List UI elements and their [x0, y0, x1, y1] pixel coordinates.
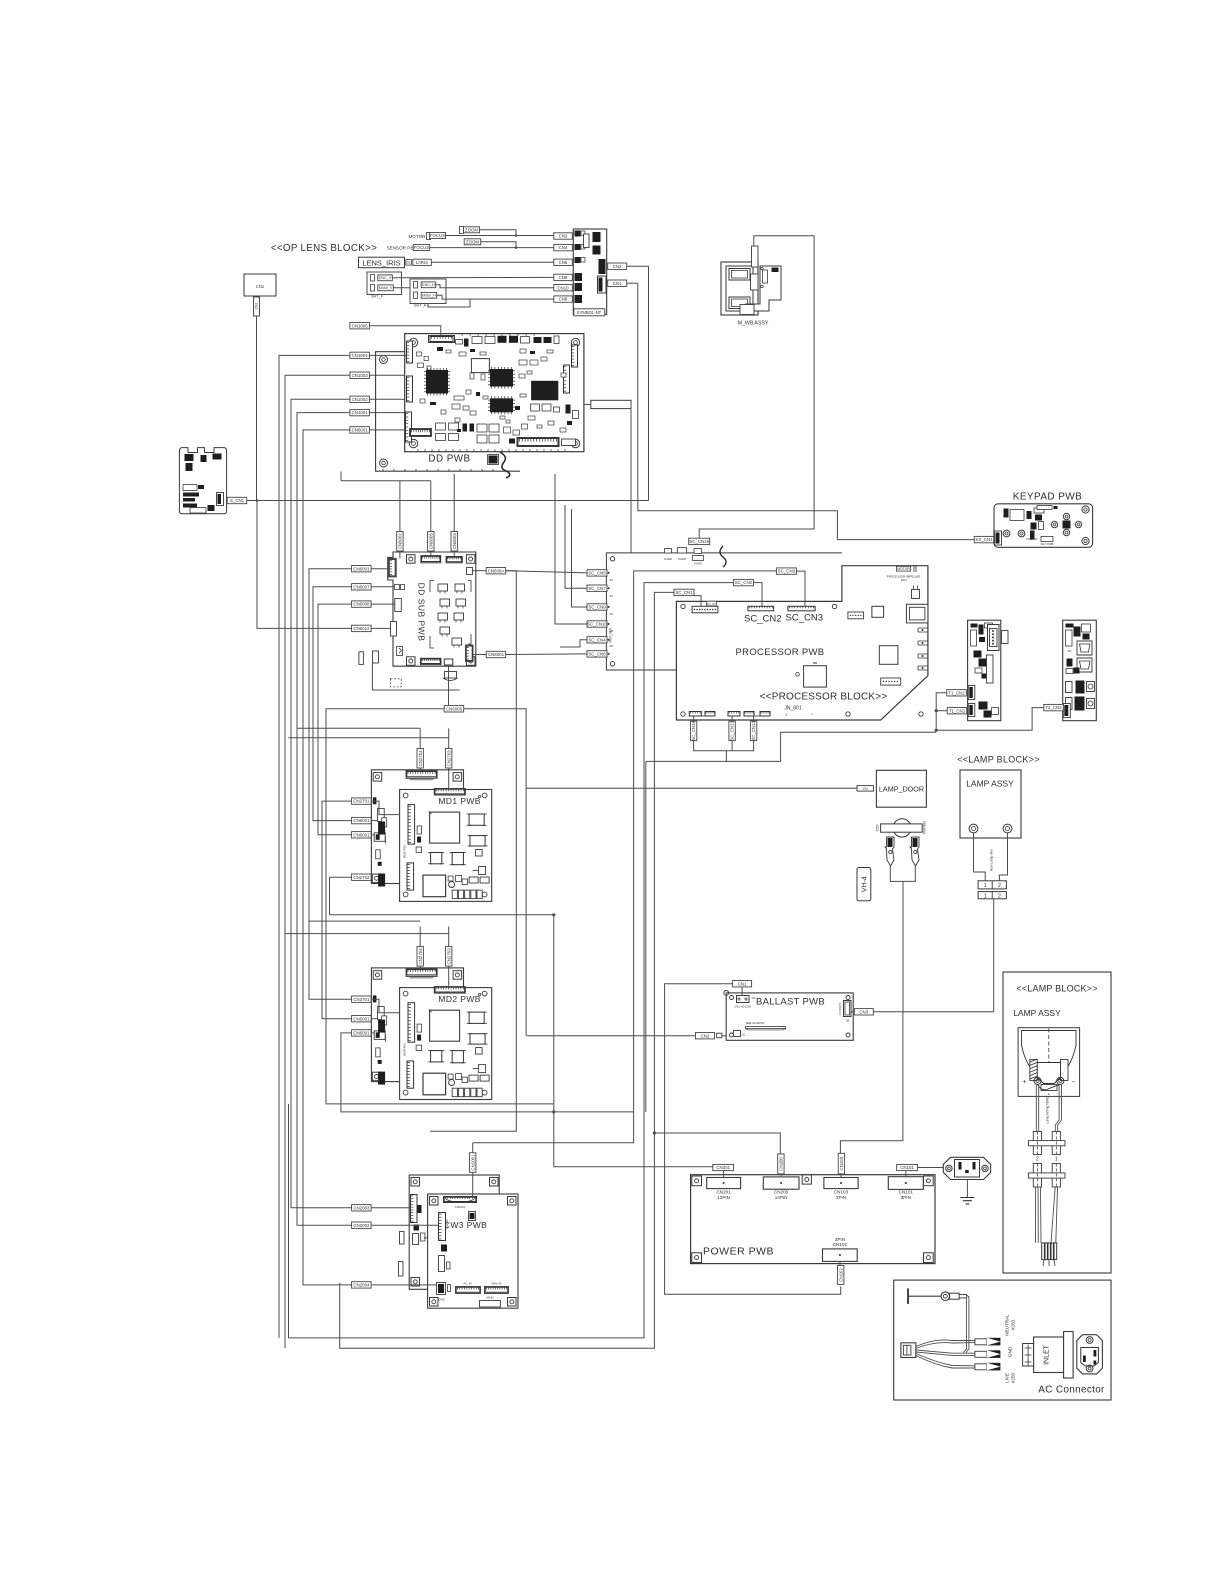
label box CN3 (ballast right) [854, 1009, 873, 1015]
MD1 PWB small left parts [417, 826, 422, 834]
svg-text:12PIN: 12PIN [717, 1195, 730, 1200]
AC inlet symbol top right of power [943, 1157, 990, 1179]
svg-text:FAN_IN: FAN_IN [492, 1282, 502, 1286]
wire CN2 to left vertical [526, 1035, 695, 1037]
right mid components DD PWB [531, 404, 540, 411]
svg-text:CN1004: CN1004 [352, 353, 369, 358]
wires from DD SUB top labels down to board [399, 551, 401, 558]
wire CN200 label to connector [780, 1174, 782, 1177]
T2 RCA connectors bottom [1066, 682, 1073, 693]
label box CN2004 [352, 1282, 372, 1288]
CW3 bottom connectors mid [456, 1287, 481, 1294]
IEC receptacle drawing [1077, 1335, 1103, 1374]
svg-text:CN2702: CN2702 [353, 875, 370, 880]
M_WB right small board [746, 266, 781, 311]
wire DD SUB lower right to label [473, 654, 486, 656]
spade terminal GND [975, 1351, 987, 1357]
svg-text:LAMP_DOOR: LAMP_DOOR [879, 785, 924, 794]
wire CN2 top to S_CN1 vertical [627, 266, 649, 500]
connector SC_CN3 on processor top [788, 606, 815, 611]
mount circles processor board [681, 604, 685, 608]
lamp hatched post left [1030, 1060, 1038, 1081]
dotted connector right processor [848, 612, 864, 619]
label box SC_CN2 (top) [733, 579, 753, 585]
MD2 PWB back left connectors CN area [378, 1007, 385, 1020]
box LAMP BLOCK lower [1003, 972, 1111, 1273]
text SYMBOL-NT [574, 309, 605, 316]
mount squares power corners [692, 1176, 702, 1186]
wire CN2701 MD2 PWB [371, 999, 399, 1013]
wire MD2 top feeds [309, 920, 420, 922]
left label SC_CN10 [587, 621, 607, 627]
wire CN2002 to CW3 [371, 1224, 438, 1226]
svg-text:CN6008: CN6008 [353, 602, 370, 607]
svg-text:CN102: CN102 [838, 1268, 843, 1282]
svg-text:1: 1 [984, 893, 987, 899]
board MD1 PWB back board [371, 770, 463, 884]
wire SC_CN2 label to connector [753, 583, 762, 607]
board POWER PWB [691, 1175, 935, 1264]
label MOTOR processor top right [896, 566, 910, 571]
svg-text:CN2701: CN2701 [353, 799, 370, 804]
box LAMP ASSY upper [960, 770, 1021, 838]
wires from DD SUB top labels up to DD PWB area [399, 481, 401, 532]
brace squiggle below DD PWB [500, 452, 510, 478]
sensor board bottom text blocks [183, 485, 197, 491]
wire SC_CN1 to left vertical down to bottom loop [340, 592, 674, 1348]
svg-text:<<PROCESSOR BLOCK>>: <<PROCESSOR BLOCK>> [760, 692, 888, 703]
wire MD1 top feeds [297, 727, 420, 729]
connector KS_CN1 on keypad [995, 531, 1002, 545]
mount squares CW3 front [430, 1197, 439, 1206]
inlet mounting plate [1064, 1332, 1074, 1379]
label box CN2003 [352, 1205, 372, 1211]
CW3 back small parts [414, 1225, 420, 1231]
mount squares MD2 PWB back [373, 971, 382, 980]
label box CN6001 MD2 PWB [352, 1030, 372, 1036]
svg-text:CN6001: CN6001 [353, 1031, 370, 1036]
label box CN1002 [350, 396, 370, 402]
small connector below-left DD SUB [373, 651, 379, 663]
MD1 PWB front top connector [434, 789, 465, 796]
mount squares MD1 PWB back [373, 773, 382, 782]
svg-text:GND: GND [1008, 1346, 1013, 1357]
keypad components cluster [1004, 509, 1009, 518]
lamp connector plugs upper pair [1033, 1132, 1041, 1155]
MD1 PWB mid ICs [431, 853, 442, 864]
group SHT_F (ENC_V / Motor_V) [367, 272, 402, 295]
svg-text:#250: #250 [1011, 1372, 1016, 1383]
MD2 PWB front left connectors [408, 1003, 415, 1042]
svg-text:ZOOM: ZOOM [465, 227, 479, 232]
svg-text:CN2703: CN2703 [446, 948, 451, 965]
svg-text:MODORI: MODORI [1027, 537, 1038, 541]
small dark part below DD PWB [489, 456, 498, 464]
mount squares DD SUB corners [407, 555, 416, 564]
wire keypad run [638, 283, 975, 539]
vertical label CN2703 above MD2 PWB [446, 947, 452, 967]
top connector A DD SUB [421, 556, 441, 563]
wire bus v291 CN1002 to CW3 CN2003 [291, 399, 352, 1208]
processor outer container [606, 553, 842, 670]
MD1 PWB back small connector CN6001 [374, 833, 385, 842]
T1 top components [971, 624, 978, 628]
keypad right screws [1082, 506, 1089, 513]
label box CN1001 [350, 409, 370, 415]
svg-text:Lamp Wiring WIRE: Lamp Wiring WIRE [1046, 1096, 1050, 1123]
svg-text:AC_IN: AC_IN [463, 1282, 471, 1286]
board DD SUB PWB outline [388, 552, 476, 666]
wire SC_CN18 branch down mid vertical [646, 760, 727, 762]
connector SC_CN (left on processor) [692, 606, 718, 613]
side connectors mid DD PWB [564, 365, 570, 393]
svg-text:CN10: CN10 [557, 285, 569, 290]
svg-text:FAN: FAN [901, 578, 907, 582]
svg-text:PROCESSOR PWB: PROCESSOR PWB [736, 647, 825, 658]
svg-text:SENSOR PB: SENSOR PB [387, 246, 414, 251]
svg-text:FOCUS: FOCUS [414, 245, 429, 250]
brace squiggle right of SC_CN16 [720, 546, 726, 567]
component K bottom left DD SUB [397, 647, 403, 656]
thermal crimp terminal right [910, 837, 919, 866]
vertical label CN200 [778, 1154, 784, 1174]
connector CN1 (top-left box) [244, 274, 276, 296]
MD1 PWB back left connectors CN area [378, 808, 385, 821]
M_WB bottom connector [740, 305, 754, 315]
T1 small box right outside [1002, 631, 1009, 644]
svg-text:CN4: CN4 [559, 245, 568, 250]
svg-text:2: 2 [1036, 1157, 1039, 1163]
wire CN6012 to DD SUB [371, 627, 390, 629]
left connectors DD SUB (CN6007 CN6008 CN6012 targets) [395, 585, 400, 590]
right edge pin rows processor [918, 628, 928, 632]
svg-text:CN: CN [752, 996, 756, 1000]
MD2 PWB small left parts [417, 1024, 422, 1032]
svg-text:CN101: CN101 [900, 1165, 914, 1170]
wire CN1002 to DD PWB left [369, 398, 404, 400]
board CW3 front board [428, 1194, 518, 1308]
svg-text:2: 2 [998, 883, 1001, 889]
svg-text:#250: #250 [876, 824, 880, 831]
component LAMP_DOOR box [876, 770, 926, 807]
board MD2 PWB back board [371, 968, 463, 1082]
svg-text:SC_CN6: SC_CN6 [588, 652, 606, 657]
svg-text:CN1: CN1 [738, 981, 747, 986]
label box CN1003 [350, 372, 370, 378]
power connector CN201 [707, 1178, 741, 1189]
svg-text:MOTOR: MOTOR [897, 567, 910, 571]
connector CN2 vertical below CN1 [254, 297, 260, 316]
svg-text:CN5001: CN5001 [353, 1016, 370, 1021]
wire CN3 right to lamp and down to power CN103 [873, 1011, 993, 1013]
svg-text:CN3: CN3 [559, 234, 568, 239]
dashed alignment box below DD SUB [390, 679, 401, 687]
label box T1_CN1 [947, 708, 967, 714]
inlet 3-pin block [1023, 1344, 1034, 1367]
power connector CN200 [763, 1177, 799, 1189]
board DD PWB main outline [405, 334, 584, 452]
ferrite box right of CN2 [717, 1033, 722, 1038]
svg-text:KEY PWB: KEY PWB [1041, 542, 1054, 546]
MD1 PWB small square right [476, 850, 483, 857]
label box CN6001 (DD SUB right lower) [486, 651, 506, 657]
svg-text:1: 1 [984, 883, 987, 889]
svg-text:CN200: CN200 [779, 1157, 784, 1171]
label box CN6001 (DD SUB left) [352, 566, 372, 572]
svg-text:−: − [1072, 1079, 1076, 1086]
wire CN6008 to DD SUB [371, 603, 395, 605]
svg-text:M_WB ASSY: M_WB ASSY [738, 321, 769, 327]
svg-text:CN5: CN5 [559, 260, 568, 265]
svg-text:<<LAMP BLOCK>>: <<LAMP BLOCK>> [957, 755, 1040, 765]
connector SC_CN2 on processor top [748, 606, 774, 611]
pin marks left inside outer [610, 579, 614, 581]
svg-text:CN2701: CN2701 [353, 997, 370, 1002]
mid bottom small parts DD PWB [504, 427, 511, 433]
big ic right processor [879, 646, 898, 665]
bottom connector DD SUB [421, 658, 442, 664]
svg-text:SC_CN2: SC_CN2 [744, 614, 782, 625]
MD1 PWB left dark connector [378, 822, 385, 835]
svg-text:CN2: CN2 [701, 1033, 710, 1038]
wire junction horizontal to CN200 [654, 1133, 780, 1154]
connector symbol at MOTOR [427, 233, 431, 240]
ic square right processor [872, 606, 884, 617]
board MD2 PWB front board [400, 988, 492, 1100]
wire ENC_V to CN9 [392, 276, 554, 278]
wire SENSOR FOCUS to CN4 [430, 247, 554, 249]
svg-text:<<LAMP BLOCK>>: <<LAMP BLOCK>> [1016, 984, 1097, 994]
splitter wires to three spades [916, 1340, 975, 1349]
svg-text:SC_CN4: SC_CN4 [588, 637, 606, 642]
label box CN2701 MD1 PWB [352, 798, 372, 804]
wire CN201 label to connector [723, 1171, 725, 1178]
svg-text:3PIN: 3PIN [901, 1195, 911, 1200]
lamp connector plugs lower pair [1033, 1164, 1041, 1188]
small parts rows DD PWB middle [452, 404, 460, 409]
svg-text:CN 16(CN): CN 16(CN) [838, 1002, 842, 1015]
svg-text:BT: BT [424, 1236, 428, 1240]
svg-text:CN6001: CN6001 [488, 652, 505, 657]
svg-text:CN201: CN201 [716, 1165, 730, 1170]
MD1 PWB back lower tiny parts [376, 850, 381, 859]
connector CN2 on lens board right edge [599, 259, 606, 274]
svg-text:KEYPAD PWB: KEYPAD PWB [1013, 492, 1082, 503]
board lens connector board (SYMBOL-NT) [573, 229, 606, 314]
junction ballast feed on SC_CN1 vertical [653, 1131, 656, 1134]
svg-text:POWER PWB: POWER PWB [703, 1246, 774, 1258]
svg-text:L/IRIS: L/IRIS [416, 260, 428, 265]
svg-text:NEUTRAL: NEUTRAL [1005, 1314, 1010, 1336]
lamp burner body [1037, 1063, 1060, 1084]
wire CN1 label to ballast [741, 987, 743, 996]
svg-text:CN8: CN8 [559, 297, 568, 302]
vertical label CN2704 above MD2 PWB [417, 947, 423, 967]
svg-text:SYMBOL-NT: SYMBOL-NT [577, 310, 602, 315]
svg-text:SC_CN2: SC_CN2 [735, 580, 753, 585]
label box SC_CN16 [689, 538, 710, 544]
svg-text:CN9: CN9 [559, 275, 568, 280]
power connector CN101 [888, 1177, 923, 1190]
power connector CN103 [824, 1178, 858, 1189]
right lower connector DD SUB [466, 645, 474, 662]
svg-text:T1_CN2: T1_CN2 [948, 690, 965, 695]
CW3 vertical small rect outside [400, 1232, 405, 1245]
three way splitter connector [901, 1343, 916, 1358]
label box CN1 (ballast) [733, 981, 752, 987]
MD1 PWB big IC bottom-left [423, 875, 446, 897]
wire DD SUB bottom-left outline wire [372, 663, 459, 690]
svg-text:#250: #250 [1011, 1319, 1016, 1330]
dark IC right DD PWB [531, 381, 558, 401]
svg-text:CN2: CN2 [255, 303, 259, 310]
svg-text:MD2 PWB: MD2 PWB [438, 994, 480, 1004]
label box CN1004 [350, 352, 370, 358]
left labels of processor SC_CN5 [587, 570, 607, 576]
svg-text:CN6001: CN6001 [353, 566, 370, 571]
vertical label CN2704 above MD1 PWB [417, 749, 423, 769]
label box T1_CN2 [947, 690, 967, 696]
ballast mount circles [730, 996, 734, 1000]
dotted connector right lower processor [881, 678, 901, 685]
wire bus v279 CN1004 to bottom loop [279, 355, 350, 1338]
lamp end connector tails [1043, 1260, 1055, 1266]
lamp post right [1061, 1060, 1069, 1081]
wire CN101 label to connector [905, 1171, 907, 1177]
svg-text:VH-4: VH-4 [862, 876, 869, 892]
wire CN6001 MD2 PWB [371, 1032, 374, 1034]
T1 D-sub connector right [988, 625, 1000, 651]
T1 connectors left edge [968, 686, 975, 700]
lamp plug flange upper [1029, 1141, 1066, 1146]
wire lamp right lead down [1055, 1085, 1061, 1132]
left label SC_CN7 [587, 585, 607, 591]
ground lug crimp [950, 1293, 960, 1299]
label box CN2 (ballast left) [696, 1033, 715, 1039]
MD2 PWB back board top connector [406, 969, 437, 977]
CW3 back left connector column [411, 1195, 418, 1223]
wires thermal terminals join [890, 866, 915, 881]
vertical label SC_CN18 below processor [690, 721, 696, 741]
svg-text:KURO: KURO [664, 557, 673, 561]
wire CN2 link from top-left CN1 box [256, 316, 258, 501]
MD2 PWB part below right ICs [479, 1065, 486, 1073]
small parts on processor outer top edge [665, 549, 672, 554]
MD2 PWB bottom caps row [452, 1088, 457, 1097]
label box CN2701 MD2 PWB [352, 996, 372, 1002]
svg-text:CN2703: CN2703 [446, 750, 451, 767]
wire CN2701 MD1 PWB [371, 801, 399, 815]
wire bus v303 CN6001 to CW3 CN2004 [303, 430, 352, 1285]
svg-text:CN1001: CN1001 [470, 1154, 475, 1171]
board T2 terminal PWB [1063, 620, 1097, 721]
MD1 PWB front left connectors [408, 805, 415, 845]
label box ZOOM (motor) [460, 227, 464, 234]
label box CN6001 MD1 PWB [352, 832, 372, 838]
CW3 front top connector [444, 1197, 477, 1203]
connector labels CN3 CN4 CN5 CN9 CN10 CN8 (lens board) [554, 233, 573, 239]
svg-text:1: 1 [1055, 1157, 1058, 1163]
svg-text:SC_CN14: SC_CN14 [751, 720, 756, 740]
wire CN6001 right to processor SC_CN6 [506, 653, 588, 656]
T1 bottom cluster [979, 702, 988, 710]
svg-text:CN1002: CN1002 [352, 397, 369, 402]
wire MOTOR FOCUS to CN3 [446, 235, 554, 237]
CW3 left small parts [441, 1245, 447, 1252]
wire CN5001 MD1 PWB [371, 820, 377, 822]
ic cluster top-middle DD PWB [456, 340, 463, 345]
svg-text:CN3: CN3 [859, 1009, 868, 1014]
T2 mid small parts [1067, 659, 1073, 667]
wire CN6007 to DD SUB [371, 586, 394, 588]
svg-text:SC_CN18: SC_CN18 [691, 720, 696, 740]
wire S_CN1 long horizontal to right [247, 500, 649, 502]
svg-text:RUN_BLK: RUN_BLK [609, 627, 613, 643]
label box CN2702 MD1 PWB [352, 874, 372, 880]
svg-text:AC Connector: AC Connector [1038, 1385, 1105, 1396]
wire CN1 top to keypad vertical [627, 282, 638, 284]
label box CN600A (DD SUB right) [486, 568, 506, 574]
svg-text:BALLAST PWB: BALLAST PWB [756, 997, 825, 1008]
vertical label CN2703 above MD1 PWB [446, 749, 452, 769]
wire CN1 left down to power CN200 [665, 984, 841, 1294]
MD1 PWB part below right ICs [479, 867, 486, 875]
svg-text:CN1: CN1 [613, 281, 622, 286]
MD2 PWB back board left edge connector [373, 995, 377, 1002]
sensor board connector S_CN1 [217, 493, 224, 506]
svg-text:ENC_V: ENC_V [379, 276, 392, 280]
board BALLAST PWB [726, 993, 853, 1040]
label box SC_CN3 (top) [776, 568, 796, 574]
svg-text:SHT_F: SHT_F [371, 295, 384, 299]
wire bus v297 CN1001 to CW3 CN2002 [297, 413, 352, 1226]
svg-text:CN1003: CN1003 [352, 373, 369, 378]
wires MD1 PWB top labels [419, 728, 421, 748]
label box KS_CN1 [974, 536, 994, 542]
ground lug [907, 1289, 909, 1305]
wire CN6006 left branch down [326, 709, 554, 1104]
svg-text:AV: AV [1068, 649, 1072, 653]
tick feet on DD back board bottom [382, 469, 384, 471]
svg-text:SC_CN3: SC_CN3 [778, 569, 796, 574]
vertical labels above DD SUB: CN6002 [397, 532, 403, 552]
wires processor bottom connectors to labels [693, 716, 695, 721]
lamp center dashed axis [1048, 1029, 1050, 1096]
wire MD1 CN2702 to long run corner [330, 877, 554, 915]
wire M_WB to SC_CN16 [699, 236, 814, 539]
svg-text:CN1005: CN1005 [352, 323, 369, 328]
wire SC_CN3 label to connector [796, 571, 805, 606]
wire CN1001 to DD PWB left [369, 412, 404, 414]
DIN connector processor right edge [906, 604, 928, 623]
svg-text:CN1: CN1 [256, 284, 265, 289]
MD2 PWB big IC bottom-left [423, 1073, 446, 1095]
pin tick strip DD PWB top [461, 334, 463, 336]
label box ZOOM (sensor) [464, 239, 481, 245]
svg-text:CN1001: CN1001 [352, 410, 369, 415]
connector pair 1 2 row2 [978, 892, 1006, 899]
label box CN2 right of lens board [608, 263, 627, 269]
vertical label CN1001 above CW3 [470, 1153, 476, 1173]
wire AC inlet to ground [966, 1180, 968, 1198]
wire blank box down to processor block [630, 405, 632, 553]
wire Motor_H to CN8 [437, 295, 554, 299]
label box FOCUS (motor) [430, 233, 446, 239]
bottom right connectors DD PWB [517, 438, 559, 447]
bottom edge connectors processor [689, 712, 701, 717]
MD2 PWB right ICs [469, 1012, 484, 1023]
MD2 PWB small square right [476, 1048, 483, 1055]
